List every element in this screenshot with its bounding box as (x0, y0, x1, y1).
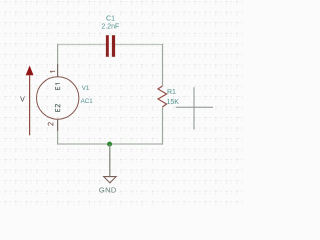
pin name E2 (55, 104, 60, 111)
wire: left vertical lower (57, 131, 59, 145)
cursor crosshair (176, 87, 213, 129)
pin 2 of V1 (57, 119, 59, 131)
capacitor C1 (106, 35, 115, 57)
svg-text:R1: R1 (167, 89, 176, 96)
svg-text:2.2nF: 2.2nF (101, 23, 119, 30)
svg-text:15K: 15K (167, 99, 180, 106)
pin number 2 (48, 122, 53, 125)
svg-text:V1: V1 (82, 85, 90, 92)
wire: top-right horizontal segment (115, 44, 163, 46)
pin 1 of V1 (57, 64, 59, 77)
svg-text:GND: GND (99, 186, 117, 195)
junction node (107, 142, 112, 147)
svg-text:C1: C1 (106, 16, 115, 23)
voltage probe arrow V (26, 66, 34, 136)
svg-text:AC1: AC1 (81, 98, 94, 105)
svg-text:V: V (20, 96, 25, 103)
ground symbol triangle (104, 177, 116, 183)
pin number 1 (50, 71, 55, 72)
wire: bottom horizontal (57, 143, 163, 145)
wire: right vertical upper (162, 44, 164, 86)
wire: top-left horizontal segment (57, 44, 106, 46)
pin of GND symbol (109, 153, 111, 177)
voltage source V1 body circle (37, 77, 79, 119)
wire: left vertical upper (57, 44, 59, 64)
pin name E1 (55, 84, 60, 90)
resistor R1 zigzag (158, 86, 167, 107)
wire: ground stub (109, 144, 111, 153)
wire: right vertical lower (162, 108, 164, 145)
